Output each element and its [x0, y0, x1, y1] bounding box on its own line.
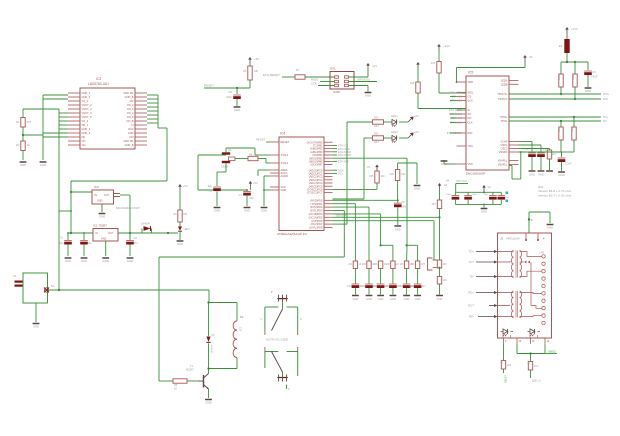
- svg-text:C7: C7: [239, 193, 243, 197]
- svg-text:GND: GND: [214, 209, 220, 213]
- resistor R26: [390, 163, 417, 184]
- ground under C8: [394, 226, 401, 232]
- svg-text:ICSP: ICSP: [333, 90, 340, 94]
- node supply junction: [44, 284, 55, 293]
- ISP header SV1: [330, 67, 354, 95]
- svg-text:AGND: AGND: [281, 174, 289, 178]
- svg-text:ON_4: ON_4: [127, 111, 134, 115]
- wire decoupling bank ground stem: [483, 204, 485, 207]
- svg-text:RST: RST: [468, 131, 474, 135]
- ground under T1: [205, 400, 212, 405]
- svg-text:IC1 7805T: IC1 7805T: [93, 224, 107, 228]
- wire decoupling bank top tail: [446, 180, 468, 193]
- ground under R2: [20, 162, 27, 167]
- svg-text:IC2: IC2: [96, 77, 101, 81]
- svg-text:4K7: 4K7: [432, 203, 437, 206]
- svg-text:GND: GND: [99, 215, 105, 219]
- svg-text:(XTAL)PD8: (XTAL)PD8: [309, 226, 323, 230]
- svg-text:100n: 100n: [484, 194, 490, 196]
- svg-text:VSSPLL: VSSPLL: [498, 163, 508, 167]
- wire to R16 column: [333, 213, 441, 218]
- svg-text:100u: 100u: [58, 242, 64, 245]
- node TPIN+ marker: [506, 192, 509, 195]
- svg-text:10K: 10K: [410, 81, 415, 85]
- wire jumper columns 3-4: [380, 244, 393, 261]
- svg-text:GND: GND: [366, 297, 372, 301]
- ground under ladder bus: [40, 162, 47, 167]
- svg-text:VA: VA: [444, 183, 448, 187]
- microcontroller IC4: [270, 132, 333, 237]
- label relay type: [266, 338, 288, 342]
- wire 5V output rail: [118, 232, 178, 234]
- resistor R6 reset pullup: [243, 63, 258, 88]
- svg-text:1K: 1K: [174, 388, 177, 391]
- svg-text:2.2uF: 2.2uF: [565, 162, 572, 166]
- ground at ISP: [365, 93, 372, 98]
- svg-text:GND: GND: [365, 94, 371, 98]
- svg-text:49R9: 49R9: [557, 126, 560, 132]
- svg-text:R13: R13: [374, 140, 379, 144]
- svg-text:ENC28J60/SP: ENC28J60/SP: [466, 172, 485, 176]
- analog supply rail: [561, 61, 588, 74]
- svg-text:10K: 10K: [411, 264, 416, 266]
- svg-text:CLK: CLK: [468, 121, 473, 125]
- pin RCT: [468, 304, 497, 308]
- svg-text:100n: 100n: [472, 194, 478, 196]
- svg-text:C16: C16: [398, 286, 403, 288]
- svg-text:GND_3: GND_3: [82, 95, 91, 99]
- svg-text:LEDA: LEDA: [501, 79, 508, 83]
- wire ETH-CS net: [333, 144, 349, 148]
- node TPIN- marker: [506, 200, 509, 203]
- svg-text:MIC2940A-3.3WT: MIC2940A-3.3WT: [116, 206, 140, 210]
- capacitor C15: [464, 192, 477, 204]
- resistor R8: [235, 153, 270, 164]
- ethernet controller IC5: [457, 71, 519, 176]
- svg-text:TPI+: TPI+: [603, 116, 609, 119]
- capacitor C14: [446, 192, 459, 204]
- resistor divider column 5: [398, 261, 415, 295]
- svg-text:GND: GND: [529, 173, 535, 177]
- crystal Q1: [221, 148, 235, 169]
- svg-text:L1: L1: [559, 44, 563, 48]
- wire SDA net: [333, 168, 344, 172]
- wire SCL net: [333, 172, 344, 176]
- ground under IC3: [99, 214, 106, 219]
- svg-text:(TXD)PD1: (TXD)PD1: [311, 202, 324, 206]
- ground under MCU: [261, 208, 268, 213]
- svg-text:VIN: VIN: [129, 135, 133, 139]
- svg-text:GND: GND: [234, 108, 240, 112]
- resistor R3: [173, 190, 187, 222]
- resistor R10: [431, 50, 466, 93]
- ground under C1: [65, 258, 72, 263]
- pin TD+: [469, 250, 498, 254]
- svg-text:GND_2: GND_2: [82, 91, 91, 95]
- svg-text:560: 560: [374, 116, 379, 120]
- svg-text:ND_1: ND_1: [82, 123, 89, 127]
- svg-text:LM2576S-ADJ: LM2576S-ADJ: [88, 82, 109, 86]
- pin RD-: [469, 315, 497, 319]
- wire R26 bottom to C8 node: [397, 181, 399, 202]
- svg-text:VO_2: VO_2: [82, 99, 89, 103]
- svg-text:4K7: 4K7: [27, 120, 32, 124]
- svg-text:R2: R2: [16, 143, 20, 147]
- svg-text:2K7: 2K7: [552, 153, 557, 156]
- svg-text:GND: GND: [547, 226, 553, 230]
- svg-text:GND: GND: [65, 259, 71, 263]
- magjack LED green: [501, 329, 514, 336]
- svg-text:TPO-: TPO-: [603, 98, 609, 101]
- ground under C10: [538, 171, 545, 177]
- svg-text:IC3: IC3: [94, 185, 99, 189]
- svg-text:10K: 10K: [254, 69, 259, 73]
- svg-text:R8: R8: [249, 153, 253, 157]
- svg-text:VSS: VSS: [468, 162, 473, 166]
- relay contact K1 upper: [260, 291, 302, 335]
- voltage regulator IC1: [93, 224, 118, 257]
- svg-text:GND_4: GND_4: [82, 127, 91, 131]
- svg-text:ON_3: ON_3: [127, 107, 134, 111]
- svg-text:R19: R19: [500, 360, 503, 365]
- capacitor C7: [239, 189, 255, 206]
- svg-text:XTAL1: XTAL1: [281, 161, 289, 165]
- resistor R20: [527, 354, 541, 383]
- svg-text:TPIN-: TPIN-: [501, 119, 508, 123]
- svg-text:ETH-VCC: ETH-VCC: [457, 180, 468, 183]
- ground under C5: [234, 107, 241, 112]
- svg-text:GND: GND: [20, 163, 26, 167]
- pin TD-: [469, 275, 497, 279]
- resistor R17: [437, 260, 447, 277]
- LED2: [391, 130, 408, 143]
- svg-text:VDD: VDD: [468, 80, 474, 84]
- svg-text:OSC2: OSC2: [500, 147, 508, 151]
- svg-text:IC5: IC5: [468, 71, 473, 75]
- transistor T1: [186, 364, 209, 398]
- svg-text:C17: C17: [409, 286, 414, 288]
- svg-text:LED1: LED1: [391, 114, 398, 118]
- svg-text:SV1: SV1: [330, 67, 336, 71]
- magjack bottom pins: [503, 335, 550, 344]
- svg-text:T: T: [423, 262, 425, 266]
- capacitor C6: [208, 184, 221, 206]
- svg-text:10K: 10K: [374, 264, 379, 266]
- wire RESET to MCU: [256, 138, 270, 143]
- svg-text:R1: R1: [16, 120, 20, 124]
- ground under C6: [214, 208, 221, 213]
- svg-text:GND ML: GND ML: [123, 139, 134, 143]
- svg-text:49R9: 49R9: [570, 126, 573, 132]
- capacitor C11 vcap: [519, 152, 573, 171]
- svg-text:+5V: +5V: [414, 114, 419, 118]
- svg-text:10K: 10K: [386, 264, 391, 266]
- svg-text:+5V: +5V: [372, 64, 377, 68]
- svg-text:TPOUT-: TPOUT-: [498, 97, 508, 101]
- svg-text:J1: J1: [500, 237, 504, 241]
- wire LED1 net: [333, 122, 373, 224]
- svg-text:16MHz: 16MHz: [221, 166, 229, 169]
- sensor jack X2: [423, 258, 437, 270]
- power driver IC2: [68, 77, 147, 149]
- svg-text:GND: GND: [33, 325, 39, 329]
- svg-text:GND_5: GND_5: [82, 131, 91, 135]
- svg-text:GND: GND: [127, 259, 133, 263]
- transformer T2: [498, 291, 522, 318]
- svg-text:D1: D1: [51, 284, 55, 288]
- ground under C2: [81, 258, 88, 263]
- wire osc1 to cap: [519, 142, 533, 153]
- ground column 3: [377, 296, 384, 302]
- net arrow above R11: [416, 62, 420, 68]
- ground under C11: [558, 172, 565, 177]
- svg-text:1N4004: 1N4004: [141, 223, 150, 226]
- svg-text:SO: SO: [468, 112, 472, 116]
- resistor R14: [557, 74, 563, 95]
- svg-text:+3V3: +3V3: [571, 27, 578, 31]
- pin TCT: [469, 260, 498, 264]
- LED3 power: [178, 222, 190, 240]
- ground under C7: [244, 208, 251, 213]
- svg-text:22p: 22p: [208, 184, 213, 188]
- svg-text:100n: 100n: [446, 194, 452, 196]
- wire decoupling bank rails: [455, 191, 501, 205]
- svg-text:330: 330: [183, 213, 188, 216]
- svg-text:R26: R26: [390, 173, 395, 176]
- svg-text:CS: CS: [468, 95, 472, 99]
- resistor divider column 1: [347, 261, 364, 295]
- svg-text:GND: GND: [404, 297, 410, 301]
- svg-text:+3V3A: +3V3A: [504, 375, 508, 383]
- wire to sensor jack: [333, 221, 438, 260]
- wire osc2 to cap: [519, 145, 542, 152]
- svg-text:10K: 10K: [400, 264, 405, 266]
- svg-text:GND: GND: [81, 259, 87, 263]
- relay contact K1 lower: [265, 347, 298, 391]
- svg-text:22p: 22p: [250, 196, 255, 200]
- svg-text:TPOUT+: TPOUT+: [497, 92, 508, 96]
- svg-text:SI: SI: [468, 108, 471, 112]
- svg-text:BC547: BC547: [186, 368, 194, 372]
- wire to resistor column 2: [333, 207, 370, 261]
- svg-text:AZ743-2C-12DE: AZ743-2C-12DE: [266, 338, 288, 342]
- resistor R2: [16, 127, 43, 160]
- svg-text:OUT: OUT: [104, 194, 110, 197]
- note text R21: [538, 185, 572, 197]
- wire MISO to ISP: [311, 78, 335, 82]
- ground under R18: [436, 296, 443, 302]
- ground under C13: [585, 88, 592, 93]
- wire jumper columns 5-6: [406, 244, 418, 261]
- svg-text:IN: IN: [95, 194, 98, 197]
- svg-text:C5: C5: [229, 90, 233, 94]
- shield loop above magjack: [528, 212, 550, 233]
- wire RESET net: [204, 84, 250, 90]
- ground at magjack shield: [547, 225, 554, 230]
- svg-text:ETH-RESET: ETH-RESET: [263, 73, 280, 77]
- ethernet jack J1: [498, 233, 552, 338]
- svg-text:49R9: 49R9: [557, 74, 560, 80]
- wire SCK to ISP: [311, 82, 335, 86]
- capacitor C5: [226, 88, 241, 106]
- svg-text:(TOSC2)PC7: (TOSC2)PC7: [307, 191, 323, 195]
- svg-text:10K: 10K: [443, 264, 448, 266]
- wire crystal left to C7 branch: [198, 155, 247, 190]
- svg-text:GND: GND: [244, 209, 250, 213]
- net labels left of ENC: [447, 91, 463, 136]
- svg-text:10K: 10K: [362, 264, 367, 266]
- wires right of IC2 to bus: [147, 95, 167, 181]
- svg-text:C6: C6: [209, 189, 213, 193]
- secondary connection wires: [520, 252, 542, 317]
- resistor R1: [16, 109, 59, 127]
- vcc arrow ENC supply: [523, 55, 532, 62]
- resistor R25: [333, 171, 386, 189]
- svg-text:GND ML: GND ML: [123, 91, 134, 95]
- svg-text:NC: NC: [130, 99, 134, 103]
- vcc arrow power led: [178, 184, 188, 190]
- svg-text:+5V: +5V: [254, 57, 259, 61]
- svg-text:LEDB: LEDB: [501, 82, 508, 86]
- svg-text:GND_B: GND_B: [125, 143, 134, 147]
- svg-text:LAN: LAN: [539, 251, 544, 255]
- svg-text:GND: GND: [97, 200, 103, 203]
- svg-text:ON: ON: [82, 139, 86, 143]
- svg-text:RESET: RESET: [281, 140, 290, 144]
- resistor divider column 6: [409, 261, 426, 295]
- resistor R11: [410, 68, 466, 109]
- resistor R18: [437, 277, 447, 295]
- svg-text:VA: VA: [529, 55, 533, 59]
- resistor R19: [500, 344, 512, 383]
- vcc arrow above R10: [437, 44, 450, 50]
- svg-text:R20: R20: [527, 361, 530, 366]
- wire to resistor column 1: [333, 204, 356, 261]
- power connector X1: [13, 273, 48, 322]
- resistor R23: [561, 117, 576, 152]
- ground under X1: [33, 324, 40, 329]
- vcc arrow near aref: [249, 181, 258, 190]
- svg-text:560: 560: [374, 132, 379, 136]
- svg-text:VOUT_4: VOUT_4: [82, 111, 93, 115]
- svg-text:GND: GND: [437, 297, 443, 301]
- svg-text:FB: FB: [82, 135, 86, 139]
- svg-text:C14: C14: [372, 286, 377, 288]
- svg-text:GND: GND: [390, 297, 396, 301]
- wire ISP gnd: [349, 86, 369, 92]
- svg-text:GND: GND: [40, 163, 46, 167]
- svg-text:C15: C15: [385, 286, 390, 288]
- svg-text:+5V: +5V: [183, 184, 188, 188]
- vcc arrow above R25: [367, 165, 379, 172]
- svg-text:LED2: LED2: [391, 130, 398, 134]
- svg-text:GND: GND: [101, 238, 107, 241]
- svg-text:LED3: LED3: [184, 228, 191, 231]
- svg-text:(OC1B)PD4: (OC1B)PD4: [309, 212, 323, 216]
- svg-text:R25: R25: [369, 175, 374, 178]
- svg-text:RD-: RD-: [469, 315, 474, 319]
- ground column 2: [366, 296, 373, 302]
- resistor R5: [159, 379, 199, 391]
- svg-text:GND: GND: [585, 89, 591, 93]
- voltage regulator IC3: [92, 185, 140, 233]
- svg-text:10K: 10K: [443, 280, 448, 282]
- resistor R22: [557, 121, 563, 152]
- wire crystal bottom to C6: [217, 163, 226, 186]
- svg-text:(INT0)PD2: (INT0)PD2: [310, 205, 323, 209]
- resistor divider column 4: [385, 261, 402, 295]
- wire ISP MOSI: [349, 78, 378, 82]
- svg-text:12V: 12V: [239, 327, 242, 332]
- wire ETH-RESET net with resistor R7: [263, 68, 335, 79]
- svg-text:O: O: [300, 318, 302, 321]
- svg-text:VA: VA: [488, 186, 491, 189]
- svg-text:OUT: OUT: [108, 232, 114, 235]
- svg-text:GN: GN: [82, 143, 86, 147]
- diode D3 flyback: [206, 303, 215, 369]
- svg-text:IC4: IC4: [280, 132, 285, 136]
- svg-text:OSC1: OSC1: [500, 143, 508, 147]
- svg-text:TCT: TCT: [469, 260, 475, 264]
- svg-text:RESET: RESET: [204, 84, 214, 88]
- wire input rail caps: [67, 232, 93, 234]
- svg-text:ETH-WOL: ETH-WOL: [450, 91, 463, 95]
- svg-text:0.1uF: 0.1uF: [591, 75, 598, 79]
- supply rail from IC2 area down to regulators: [59, 109, 167, 290]
- wire ENC VSS to ground: [444, 160, 457, 164]
- svg-text:GND: GND: [415, 297, 421, 301]
- wire pullup rail to column 5: [333, 158, 408, 261]
- svg-text:ON_B: ON_B: [126, 119, 133, 123]
- wire agnd to ground: [263, 176, 270, 206]
- ground column 4: [390, 296, 397, 302]
- svg-text:2K2: 2K2: [534, 365, 539, 368]
- svg-text:Version B2.7 + 2.2K ohm: Version B2.7 + 2.2K ohm: [538, 193, 572, 197]
- svg-text:VSSRX: VSSRX: [499, 150, 508, 154]
- capacitor C1: [58, 233, 72, 256]
- svg-text:TPO+: TPO+: [603, 93, 610, 96]
- magjack pin circles: [539, 251, 545, 325]
- svg-text:VO_3: VO_3: [82, 119, 89, 123]
- svg-text:49R9: 49R9: [571, 74, 574, 80]
- resistor R12: [373, 116, 393, 129]
- ground under R24: [546, 170, 553, 172]
- capacitor C8: [394, 200, 408, 225]
- svg-text:1K: 1K: [27, 143, 30, 147]
- svg-text:OSC: OSC: [468, 144, 474, 148]
- svg-text:C12: C12: [347, 286, 352, 288]
- svg-text:R7: R7: [296, 68, 300, 72]
- svg-text:IN: IN: [96, 232, 99, 235]
- wire TPIN+ line: [509, 116, 608, 119]
- svg-text:10K: 10K: [401, 173, 406, 176]
- wire relay drive from MCU: [159, 211, 344, 382]
- svg-text:ON_2: ON_2: [127, 103, 134, 107]
- svg-text:SCK: SCK: [468, 99, 474, 103]
- wire ETH-INT net: [333, 160, 349, 164]
- svg-text:VCAP: VCAP: [500, 140, 507, 144]
- svg-text:(OC2)PD7: (OC2)PD7: [310, 222, 323, 226]
- svg-text:RCT: RCT: [468, 304, 474, 308]
- svg-text:VA: VA: [367, 166, 370, 169]
- wire to resistor column 3: [333, 214, 381, 245]
- ground at ENC VSS: [441, 161, 448, 166]
- wire ETH-MOSI net: [333, 153, 352, 157]
- svg-text:K1: K1: [240, 315, 244, 319]
- svg-text:R6: R6: [243, 69, 247, 73]
- svg-text:HR911105A: HR911105A: [506, 237, 520, 241]
- wire ETH-SCK net: [333, 147, 351, 151]
